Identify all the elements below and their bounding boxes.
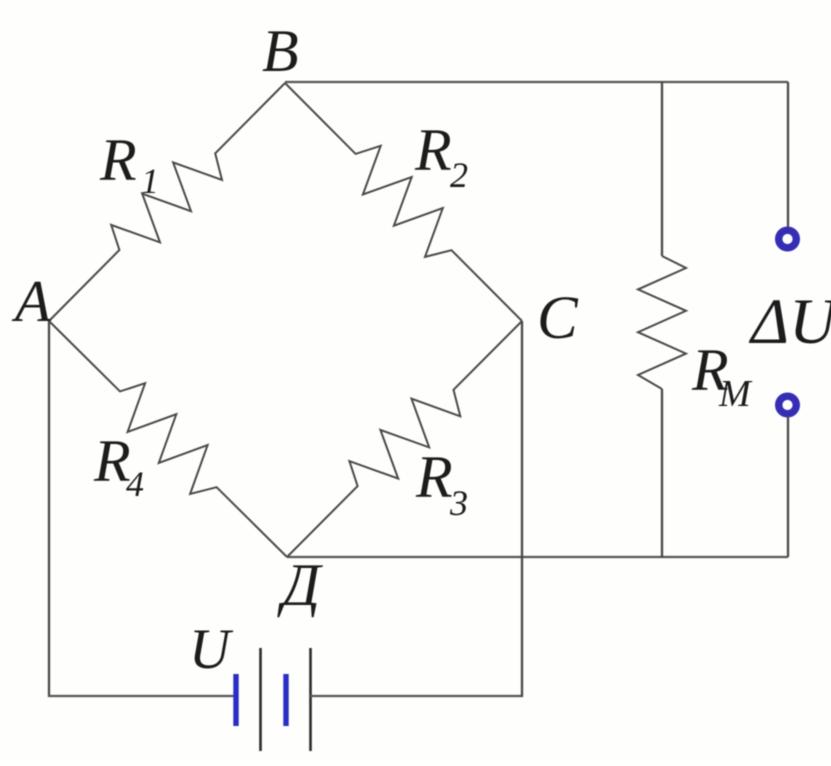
wire B to top-right corner: [285, 81, 788, 83]
terminal bottom (blue circle): [779, 396, 797, 414]
wire battery to C branch: [310, 695, 523, 697]
wire right vertical upper (corner to top terminal): [787, 82, 789, 229]
wire node A down: [48, 321, 50, 697]
battery U plate short blue 2: [283, 674, 288, 726]
wire bottom-left to battery: [48, 695, 236, 697]
svg-text:2: 2: [450, 155, 468, 195]
svg-text:C: C: [537, 285, 579, 352]
svg-text:R: R: [99, 127, 137, 193]
svg-text:ΔU: ΔU: [748, 286, 831, 358]
svg-text:R: R: [93, 428, 131, 494]
resistor R3 (arm D-C): [287, 321, 522, 557]
wire node C down: [521, 321, 523, 697]
svg-text:M: M: [718, 373, 753, 415]
resistor R1 (arm A-B): [49, 83, 285, 321]
battery U plate short blue 1: [233, 674, 238, 726]
svg-text:R: R: [415, 444, 453, 510]
battery U plate long 1: [259, 648, 262, 751]
svg-text:B: B: [262, 18, 299, 84]
svg-text:Д: Д: [277, 552, 323, 618]
wire RM branch lower: [661, 389, 663, 557]
terminal top (blue circle): [779, 230, 797, 248]
wire right vertical lower (bottom terminal to bottom rail): [787, 416, 789, 557]
battery U plate long 2: [309, 648, 312, 751]
svg-text:1: 1: [141, 161, 159, 201]
resistor R2 (arm B-C): [285, 83, 522, 321]
svg-text:U: U: [189, 618, 234, 681]
svg-text:A: A: [11, 268, 52, 334]
resistor RM: [638, 256, 686, 389]
resistor R4 (arm A-D): [49, 321, 287, 557]
wire bottom rail from node D to right: [287, 556, 788, 558]
wire RM branch upper: [661, 82, 663, 256]
svg-text:4: 4: [126, 464, 144, 504]
svg-text:R: R: [414, 117, 452, 183]
svg-text:3: 3: [449, 483, 468, 523]
